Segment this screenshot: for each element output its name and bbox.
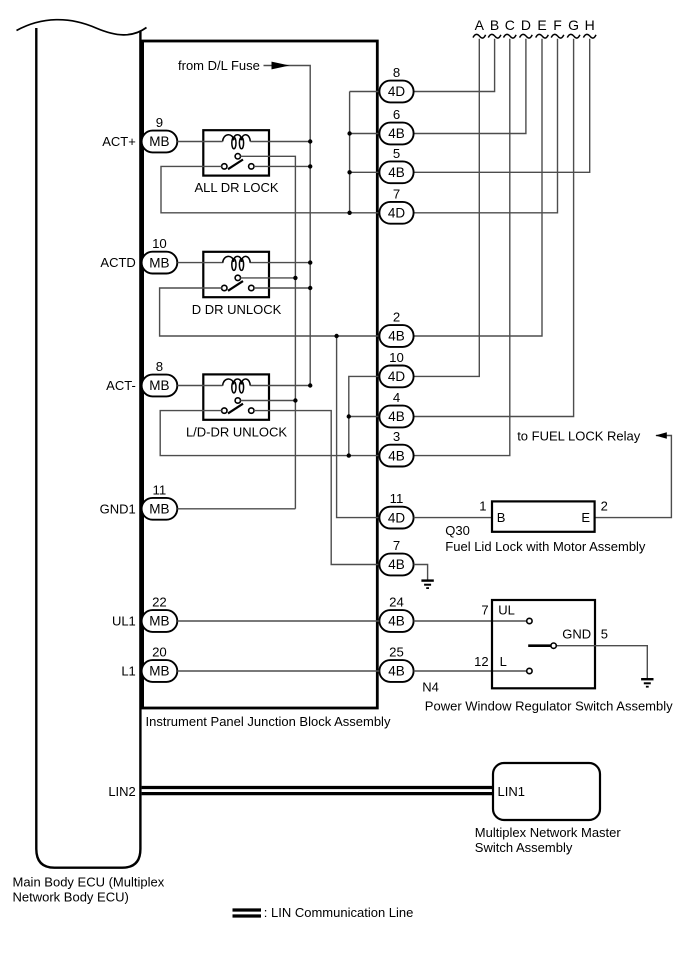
wire D DR UNLOCK output loop to 4B pin 2	[160, 288, 380, 336]
junction fuse bus / ALL coil	[308, 139, 312, 143]
svg-text:Main Body ECU (Multiplex: Main Body ECU (Multiplex	[13, 874, 165, 889]
svg-text:4D: 4D	[388, 510, 406, 525]
svg-text:D: D	[521, 17, 531, 33]
svg-text:MB: MB	[149, 502, 169, 517]
connector 4B pin 6	[379, 123, 413, 145]
wire Q30 pin E to FUEL LOCK relay	[595, 436, 672, 518]
svg-text:4: 4	[393, 390, 400, 405]
svg-text:11: 11	[390, 491, 404, 506]
svg-text:4B: 4B	[388, 165, 405, 180]
wire break squiggle under H	[583, 34, 596, 38]
svg-text:9: 9	[156, 115, 163, 130]
svg-text:11: 11	[153, 482, 167, 497]
svg-text:MB: MB	[149, 134, 169, 149]
relay L/D-DR UNLOCK switch	[222, 398, 254, 414]
svg-text:Multiplex Network Master: Multiplex Network Master	[475, 825, 622, 840]
svg-text:L/D-DR UNLOCK: L/D-DR UNLOCK	[186, 424, 287, 439]
IC U3 Multiplex Network Master Switch body	[493, 763, 600, 820]
junction lock bus / 4B5	[347, 170, 351, 174]
svg-text:Power Window Regulator Switch: Power Window Regulator Switch Assembly	[425, 698, 673, 713]
wire 4D11 to Q30 pin B	[414, 517, 492, 519]
wire to node H	[414, 39, 590, 173]
svg-text:12: 12	[474, 654, 488, 669]
junction ground bus / D common	[293, 276, 297, 280]
wire L/D-DR UNLOCK coil to fuse bus	[250, 385, 310, 387]
connector 4B pin 25	[379, 660, 413, 682]
wire unlock branch 4D10-4B4-4B3	[349, 376, 380, 455]
svg-text:4D: 4D	[388, 84, 406, 99]
svg-text:Network Body ECU): Network Body ECU)	[13, 889, 129, 904]
junction fuse bus / D contact	[308, 286, 312, 290]
svg-text:A: A	[475, 17, 485, 33]
wire unlock branch to 4B pin 4	[349, 416, 380, 418]
IC U1 Main Body ECU body outline	[36, 28, 140, 868]
svg-text:MB: MB	[149, 664, 169, 679]
wire ALL DR LOCK common to ground bus	[240, 156, 295, 509]
motor Q30 box	[492, 501, 595, 531]
wire break squiggle on ECU top	[17, 20, 147, 35]
svg-text:H: H	[585, 17, 595, 33]
connector MB pin 8 (ACT-)	[142, 375, 178, 397]
svg-text:G: G	[568, 17, 579, 33]
wire break squiggle under E	[536, 34, 549, 38]
svg-text:7: 7	[393, 538, 400, 553]
svg-text:10: 10	[152, 236, 167, 251]
svg-text:L: L	[500, 654, 507, 669]
svg-text:E: E	[581, 510, 590, 525]
connector MB pin 9 (ACT+)	[142, 131, 178, 153]
wire L/D-DR UNLOCK output loop to 4B pin 3	[160, 411, 379, 456]
junction fuse bus / D coil	[308, 260, 312, 264]
wire to node A	[414, 39, 480, 377]
connector 4B pin 4	[379, 406, 413, 428]
wire ACT+ to ALL DR LOCK coil	[177, 141, 222, 143]
wire lock bus to 4B pin 6	[350, 133, 380, 135]
connector 4D pin 11	[379, 507, 413, 529]
svg-text:7: 7	[393, 186, 400, 201]
svg-text:GND1: GND1	[100, 501, 136, 516]
wire break squiggle under A	[473, 34, 486, 38]
svg-text:8: 8	[393, 65, 400, 80]
svg-text:4B: 4B	[388, 664, 405, 679]
wire ACT- to L/D-DR UNLOCK coil	[177, 385, 222, 387]
svg-text:3: 3	[393, 429, 400, 444]
junction 4B4 branch	[347, 414, 351, 418]
svg-text:4D: 4D	[388, 206, 406, 221]
junction fuse bus / ALL contact	[308, 164, 312, 168]
wire 4B pin 2 branch to 4D pin 11	[337, 336, 380, 518]
wire lock bus to 4B pin 5	[350, 171, 380, 173]
wire ALL DR LOCK output loop to 4D pin 7	[161, 166, 379, 212]
svg-text:1: 1	[479, 499, 486, 514]
wire ALL DR LOCK coil to fuse bus	[250, 141, 310, 143]
relay ALL DR LOCK box	[203, 130, 269, 175]
connector MB pin 22 (UL1)	[142, 610, 178, 632]
relay D DR UNLOCK switch	[222, 275, 254, 291]
wire GND1 to ground bus	[177, 508, 295, 510]
wire L1 to 4B25	[177, 670, 379, 672]
wire to node B	[414, 39, 495, 92]
svg-text:ACTD: ACTD	[100, 255, 135, 270]
relay D DR UNLOCK box	[203, 252, 269, 297]
svg-text:4B: 4B	[388, 448, 405, 463]
relay L/D-DR UNLOCK coil	[223, 379, 251, 393]
ground G1	[421, 581, 433, 589]
wire to node G	[414, 39, 574, 417]
connector 4D pin 7	[379, 202, 413, 224]
wire lock bus to 4D pin 8	[350, 91, 380, 93]
wire lock bus vertical	[349, 92, 351, 213]
wire to node E	[414, 39, 542, 336]
svg-text:2: 2	[601, 499, 608, 514]
svg-text:4B: 4B	[388, 329, 405, 344]
connector 4B pin 2	[379, 325, 413, 347]
svg-text:B: B	[490, 17, 499, 33]
svg-text:: LIN Communication Line: : LIN Communication Line	[264, 905, 414, 920]
relay L/D-DR UNLOCK box	[203, 374, 269, 419]
IC U2 Instrument Panel Junction Block body outline	[143, 41, 378, 708]
wire L/D-DR UNLOCK common to ground bus	[240, 400, 295, 402]
arrowhead to FUEL LOCK Relay	[655, 432, 667, 439]
svg-text:10: 10	[389, 350, 404, 365]
relay D DR UNLOCK coil	[223, 256, 251, 270]
connector MB pin 10 (ACTD)	[142, 252, 178, 274]
wire 4B7 to ground	[414, 565, 428, 581]
svg-text:UL: UL	[498, 603, 515, 618]
svg-text:from D/L Fuse: from D/L Fuse	[178, 58, 260, 73]
relay ALL DR LOCK switch	[222, 154, 254, 170]
wire break squiggle under B	[488, 34, 501, 38]
wire to node D	[414, 39, 526, 134]
wire to node C	[414, 39, 510, 456]
legend LIN line symbol	[233, 910, 262, 916]
junction 4B3 branch	[347, 453, 351, 457]
wire ACTD to D DR UNLOCK coil	[177, 262, 222, 264]
svg-text:8: 8	[156, 359, 163, 374]
wire D DR UNLOCK NC contact to fuse bus	[254, 287, 310, 289]
svg-text:ACT-: ACT-	[106, 378, 136, 393]
wire to node F	[414, 39, 558, 213]
svg-text:N4: N4	[422, 680, 439, 695]
wire LIN communication line	[142, 788, 493, 794]
svg-text:24: 24	[389, 595, 404, 610]
svg-text:Switch Assembly: Switch Assembly	[475, 840, 573, 855]
wire D DR UNLOCK common to ground bus	[240, 277, 295, 279]
svg-text:MB: MB	[149, 378, 169, 393]
connector 4B pin 5	[379, 161, 413, 183]
svg-text:2: 2	[393, 310, 400, 325]
wire 4B24 to switch UL	[414, 620, 527, 622]
svg-text:D DR UNLOCK: D DR UNLOCK	[192, 302, 282, 317]
svg-text:UL1: UL1	[112, 614, 136, 629]
svg-text:MB: MB	[149, 255, 169, 270]
junction lock bus / 4B6	[347, 131, 351, 135]
connector 4B pin 3	[379, 445, 413, 467]
switch N4 box	[492, 600, 595, 688]
connector MB pin 11 (GND1)	[142, 498, 178, 520]
relay ALL DR LOCK coil	[223, 135, 251, 149]
junction ground bus / L-D common	[293, 398, 297, 402]
wire break squiggle under C	[504, 34, 517, 38]
svg-text:MB: MB	[149, 614, 169, 629]
svg-text:4B: 4B	[388, 614, 405, 629]
junction 4B2 branch	[334, 334, 338, 338]
wire fuse feed from D/L Fuse to bus	[264, 66, 311, 386]
connector 4D pin 8	[379, 81, 413, 103]
svg-text:Instrument Panel Junction Bloc: Instrument Panel Junction Block Assembly	[146, 714, 391, 729]
svg-text:L1: L1	[121, 664, 135, 679]
ground G2	[641, 679, 653, 687]
svg-text:20: 20	[152, 645, 167, 660]
svg-text:ALL DR LOCK: ALL DR LOCK	[194, 180, 278, 195]
svg-text:GND: GND	[562, 627, 591, 642]
wire break squiggle under D	[520, 34, 533, 38]
wire ALL DR LOCK NC contact to fuse bus	[254, 165, 310, 167]
svg-text:C: C	[505, 17, 515, 33]
connector 4B pin 24	[379, 610, 413, 632]
svg-text:E: E	[537, 17, 546, 33]
svg-text:B: B	[497, 510, 506, 525]
svg-text:ACT+: ACT+	[102, 134, 136, 149]
junction fuse bus / L-D coil	[308, 383, 312, 387]
switch N4 contacts	[527, 618, 557, 673]
connector MB pin 20 (L1)	[142, 660, 178, 682]
svg-text:Fuel Lid Lock with Motor Assem: Fuel Lid Lock with Motor Assembly	[445, 539, 646, 554]
wire D DR UNLOCK coil to fuse bus	[250, 262, 310, 264]
junction lock bus / 4D7	[347, 211, 351, 215]
wire L/D-DR UNLOCK NC contact to 4B pin 7	[254, 411, 380, 565]
svg-text:7: 7	[481, 602, 488, 617]
svg-text:4B: 4B	[388, 557, 405, 572]
svg-text:6: 6	[393, 107, 400, 122]
svg-text:to FUEL LOCK Relay: to FUEL LOCK Relay	[517, 428, 641, 443]
svg-text:LIN1: LIN1	[498, 784, 525, 799]
wire break squiggle under F	[551, 34, 564, 38]
arrowhead from D/L Fuse	[272, 62, 290, 70]
connector 4B pin 7	[379, 554, 413, 576]
svg-text:25: 25	[389, 645, 404, 660]
svg-text:5: 5	[393, 146, 400, 161]
svg-text:F: F	[553, 17, 562, 33]
svg-text:LIN2: LIN2	[108, 784, 135, 799]
wire N4 GND to ground	[556, 646, 647, 679]
wire break squiggle under G	[567, 34, 580, 38]
svg-text:Q30: Q30	[445, 523, 470, 538]
svg-text:4D: 4D	[388, 369, 406, 384]
svg-text:4B: 4B	[388, 409, 405, 424]
svg-text:5: 5	[601, 627, 608, 642]
wire UL1 to 4B24	[177, 620, 379, 622]
svg-text:4B: 4B	[388, 126, 405, 141]
wire 4B25 to switch L	[414, 670, 527, 672]
connector 4D pin 10	[379, 366, 413, 388]
svg-text:22: 22	[152, 595, 167, 610]
